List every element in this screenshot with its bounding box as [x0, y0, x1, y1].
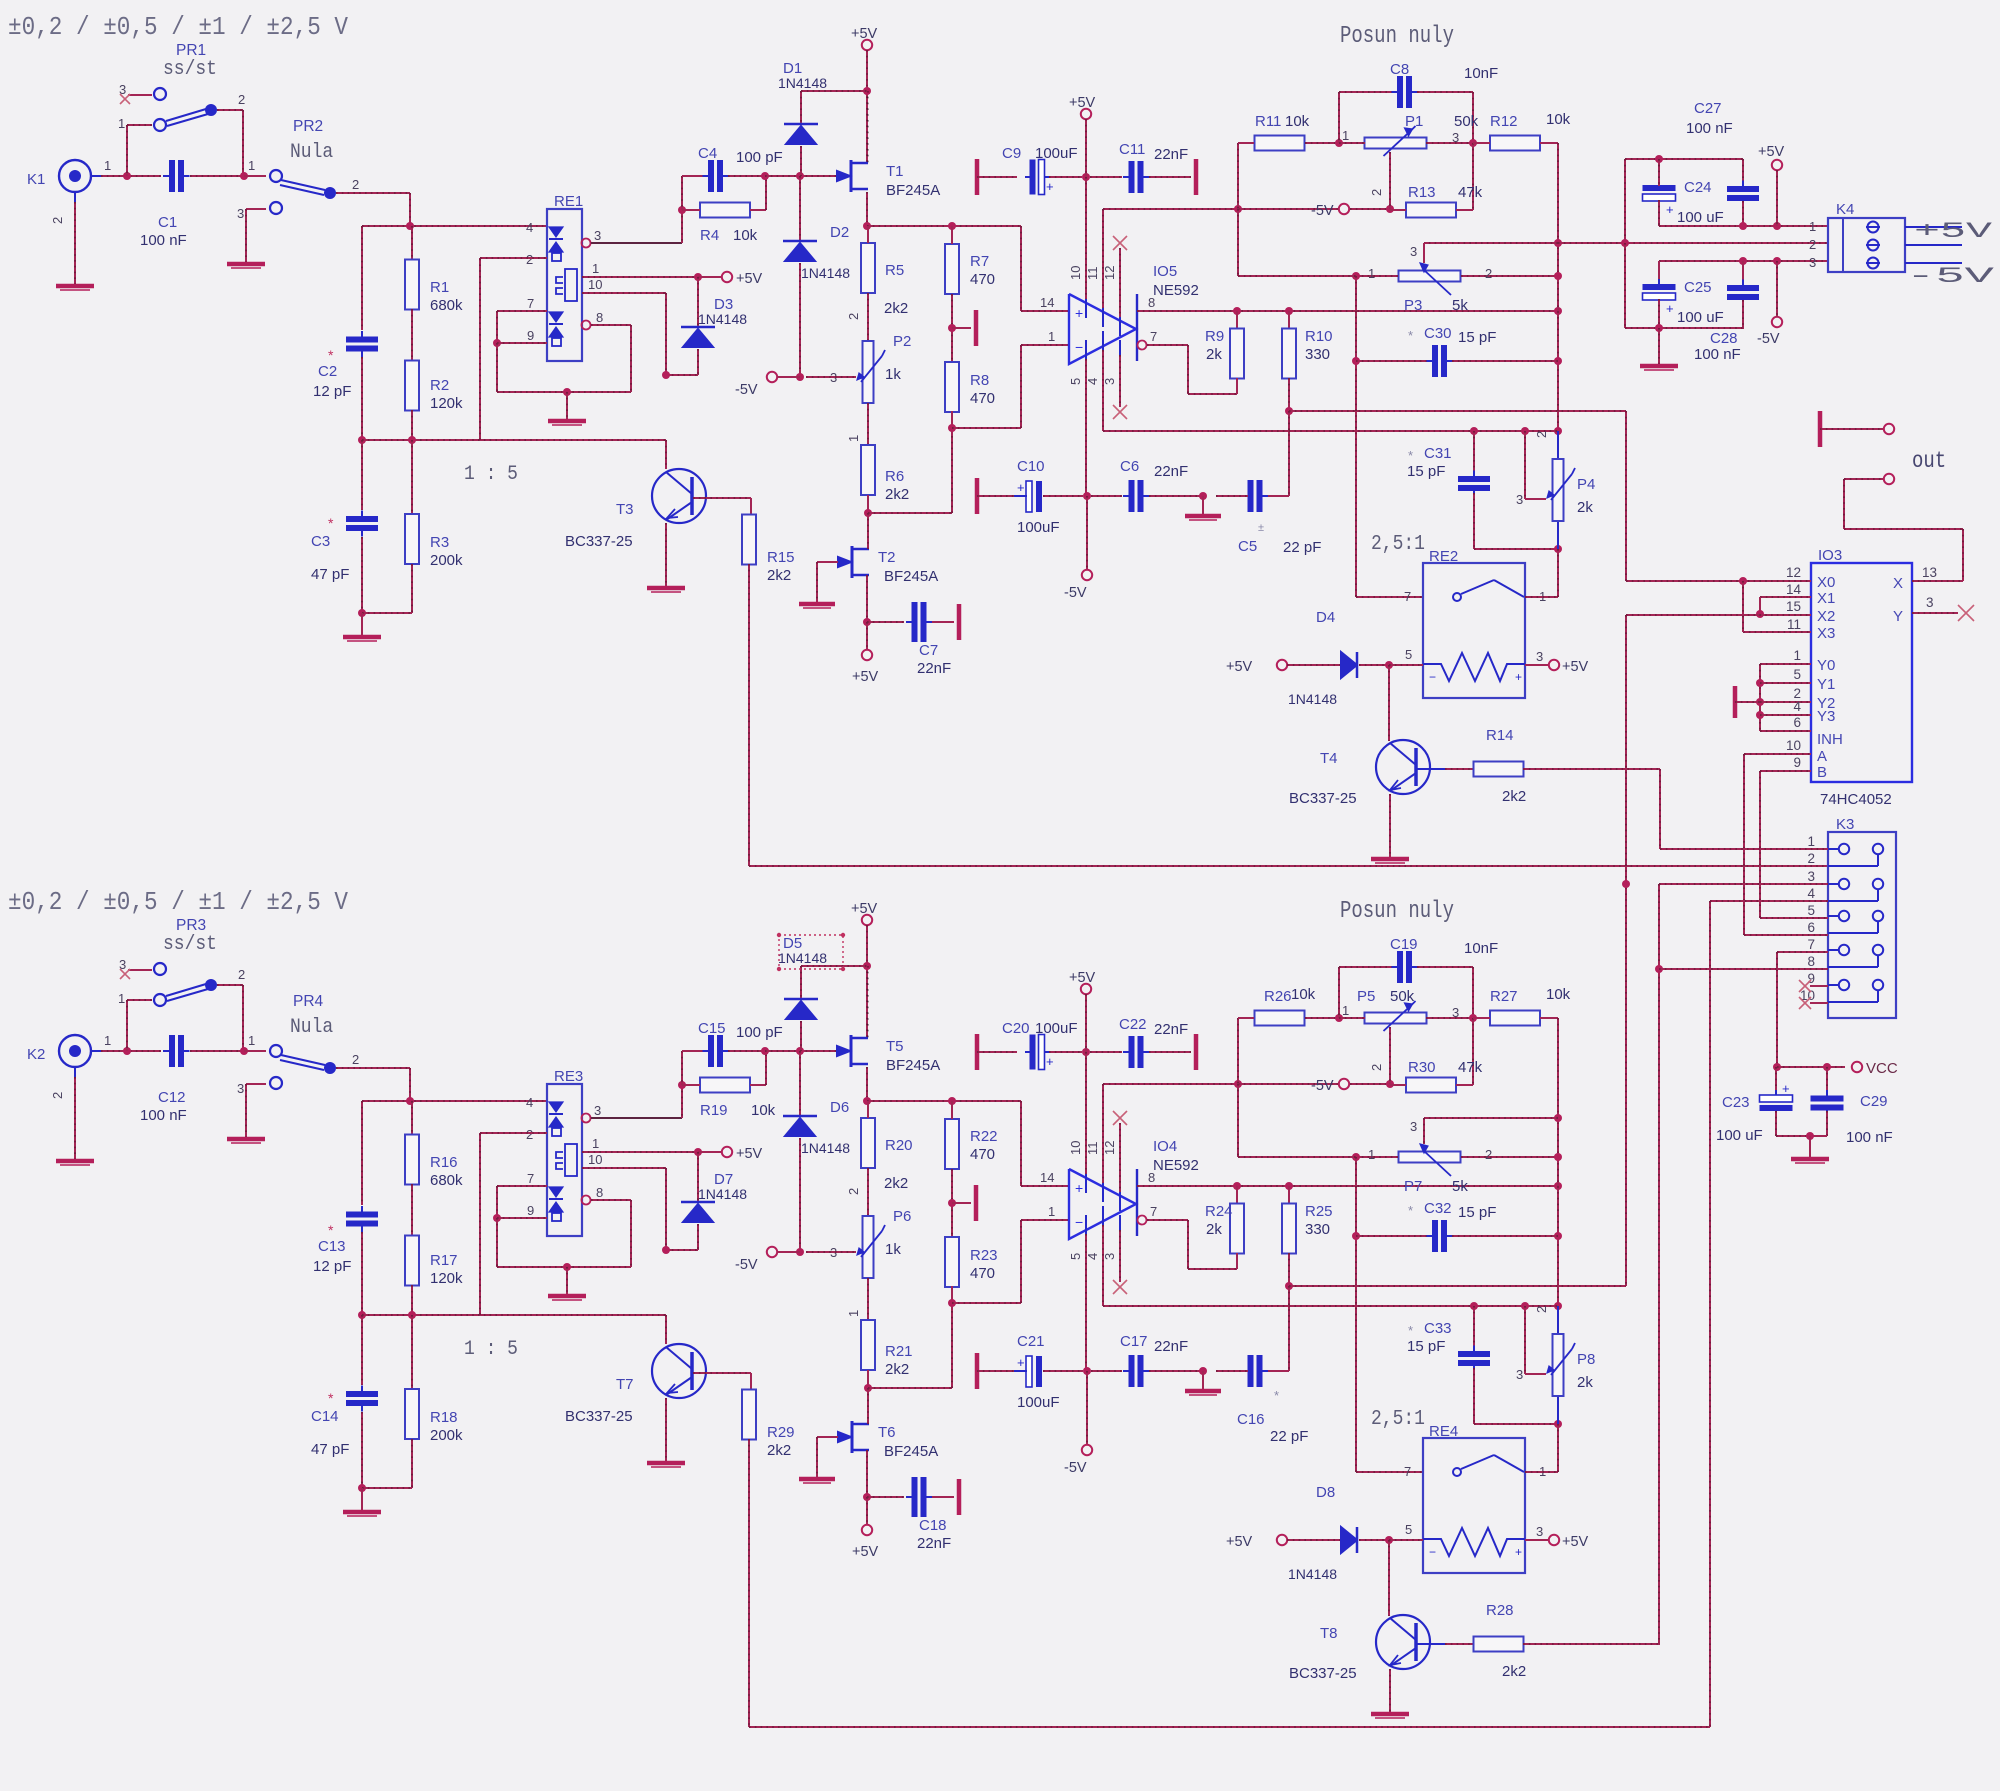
capacitor C33 — [1473, 1306, 1475, 1349]
resistor R3 — [411, 440, 413, 514]
capacitor C3 — [361, 440, 363, 510]
svg-text:100 nF: 100 nF — [140, 232, 187, 249]
wire -5V node to P3 pin1 ch2 — [1237, 1084, 1239, 1157]
+5V pin at K4 — [1772, 160, 1782, 170]
svg-text:K3: K3 — [1836, 816, 1854, 833]
svg-text:C5: C5 — [1238, 538, 1257, 555]
svg-text:K4: K4 — [1836, 201, 1854, 218]
K4 supply loop top rail — [1625, 158, 1743, 160]
svg-text:22nF: 22nF — [917, 660, 951, 677]
svg-text:50k: 50k — [1454, 113, 1479, 130]
diode D2 — [799, 176, 801, 241]
svg-text:12: 12 — [1786, 565, 1801, 580]
svg-text:+5V: +5V — [736, 1146, 763, 1162]
svg-text:2: 2 — [1809, 237, 1816, 252]
svg-text:10k: 10k — [733, 227, 758, 244]
svg-text:3: 3 — [1102, 378, 1117, 385]
resistor R10 — [1288, 311, 1290, 329]
svg-text:7: 7 — [1150, 1204, 1157, 1219]
svg-text:T3: T3 — [616, 501, 634, 518]
riser P3 pin1 to RE2 pin7 ch1 — [1355, 276, 1357, 597]
svg-text:BC337-25: BC337-25 — [1289, 1665, 1357, 1682]
svg-text:+5V: +5V — [852, 669, 879, 685]
K3 pin10 stub — [1810, 1002, 1828, 1004]
wire PR pin2 ch2 — [217, 984, 243, 986]
svg-text:2k: 2k — [1206, 346, 1222, 363]
ground below K1 — [56, 284, 94, 289]
resistor R12 — [1490, 136, 1540, 151]
diode D6 — [799, 1051, 801, 1116]
svg-text:2,5:1: 2,5:1 — [1371, 531, 1425, 556]
connector K1 — [59, 160, 91, 192]
resistor R20 — [861, 1118, 875, 1168]
svg-text:9: 9 — [527, 1203, 534, 1218]
wire C4 node to T1 gate ch2 — [765, 1050, 837, 1052]
IO supply riser ch1 — [1085, 177, 1087, 299]
relay RE1 — [547, 209, 582, 361]
svg-text:1: 1 — [104, 158, 111, 173]
svg-text:-5V: -5V — [1757, 331, 1780, 347]
capacitor C29 — [1826, 1067, 1828, 1095]
T4 emitter ground ch2 — [1389, 1669, 1391, 1713]
diode D1 — [801, 90, 867, 92]
svg-text:−: − — [1075, 339, 1083, 355]
svg-text:6: 6 — [1807, 920, 1815, 935]
node junction at PR pin1 drop ch1 — [123, 172, 131, 180]
svg-text:R10: R10 — [1305, 328, 1333, 345]
svg-text:+5V: +5V — [1758, 144, 1785, 160]
RE pin3 ch1 — [582, 239, 591, 248]
svg-text:15: 15 — [1786, 599, 1801, 614]
svg-text:C7: C7 — [919, 642, 938, 659]
svg-text:22 pF: 22 pF — [1270, 1428, 1308, 1445]
capacitor C2 — [361, 226, 363, 330]
ground T3 emitter ch2 — [665, 1398, 667, 1462]
RE pin7 wire ch1 — [497, 310, 547, 312]
svg-text:5: 5 — [1068, 378, 1083, 385]
svg-text:R16: R16 — [430, 1154, 458, 1171]
svg-text:R20: R20 — [885, 1137, 913, 1154]
svg-text:R18: R18 — [430, 1409, 458, 1426]
svg-text:R1: R1 — [430, 279, 449, 296]
svg-text:3: 3 — [1516, 492, 1523, 507]
svg-text:+5V: +5V — [851, 901, 878, 917]
svg-text:470: 470 — [970, 271, 995, 288]
+5V pin at RE1 ch2 — [722, 1147, 732, 1157]
svg-text:74HC4052: 74HC4052 — [1820, 791, 1892, 808]
gnd cap rail left ch1 — [975, 159, 980, 195]
svg-text:4: 4 — [1085, 1253, 1100, 1260]
svg-text:PR4: PR4 — [293, 993, 324, 1010]
svg-text:R28: R28 — [1486, 1602, 1514, 1619]
svg-text:+5V: +5V — [1562, 1534, 1589, 1550]
svg-text:5: 5 — [1405, 1522, 1412, 1537]
svg-text:ss/st: ss/st — [163, 932, 217, 955]
svg-text:1: 1 — [846, 435, 861, 442]
svg-text:C2: C2 — [318, 363, 337, 380]
svg-text:5: 5 — [1405, 647, 1412, 662]
ground with pin near out — [1818, 411, 1823, 447]
svg-text:R29: R29 — [767, 1424, 795, 1441]
svg-text:3: 3 — [1807, 869, 1815, 884]
RE pin7 wire ch2 — [497, 1185, 547, 1187]
K4 loop bottom rail — [1659, 225, 1828, 227]
svg-text:10k: 10k — [1546, 986, 1571, 1003]
svg-text:R21: R21 — [885, 1343, 913, 1360]
+5V below T2 ch2 — [866, 1497, 868, 1525]
svg-text:5: 5 — [1068, 1253, 1083, 1260]
svg-text:7: 7 — [1404, 589, 1411, 604]
svg-text:R17: R17 — [430, 1252, 458, 1269]
svg-text:2k2: 2k2 — [885, 486, 909, 503]
svg-text:1: 1 — [1342, 1003, 1349, 1018]
svg-text:R6: R6 — [885, 468, 904, 485]
svg-text:3: 3 — [1452, 1005, 1459, 1020]
svg-text:2,5:1: 2,5:1 — [1371, 1406, 1425, 1431]
RE2 coil ch2 — [1423, 1528, 1525, 1556]
svg-text:C3: C3 — [311, 533, 330, 550]
svg-text:T4: T4 — [1320, 750, 1338, 767]
IO pin8 output ch2 — [1137, 1185, 1558, 1187]
IO pin4 line ch1 — [1103, 430, 1558, 432]
ground ladder ch2 — [361, 1488, 363, 1511]
svg-text:C15: C15 — [698, 1020, 726, 1037]
svg-text:*: * — [1408, 448, 1413, 463]
svg-text:1: 1 — [592, 1136, 599, 1151]
svg-text:-5V: -5V — [1311, 1078, 1334, 1094]
svg-text:X3: X3 — [1817, 625, 1835, 642]
svg-text:+: + — [1666, 301, 1674, 316]
svg-text:-5V: -5V — [1064, 1460, 1087, 1476]
svg-text:R12: R12 — [1490, 113, 1518, 130]
RE pin9 wire ch1 — [493, 339, 501, 347]
K4 pin2 wire — [1558, 242, 1828, 244]
capacitor C23 — [1775, 1067, 1777, 1095]
svg-text:2k: 2k — [1577, 1374, 1593, 1391]
IO3 pin 3 Y output with X mark — [1912, 612, 1958, 614]
wire R10 bottom to IO3 ch1 — [1289, 410, 1626, 412]
feedback riser ch1 — [1557, 143, 1559, 458]
node junction at PR pin1 drop ch2 — [123, 1047, 131, 1055]
svg-text:1: 1 — [118, 991, 125, 1006]
wire PR2 pole ch2 — [336, 1067, 410, 1069]
svg-text:T2: T2 — [878, 549, 896, 566]
svg-text:120k: 120k — [430, 395, 463, 412]
capacitor C1 — [169, 160, 175, 192]
wire ladder mid ch1 — [362, 439, 666, 441]
capacitor C4 — [681, 176, 683, 210]
svg-text:3: 3 — [1452, 130, 1459, 145]
IC IO3 74HC4052 — [1811, 563, 1912, 782]
svg-text:120k: 120k — [430, 1270, 463, 1287]
svg-text:1N4148: 1N4148 — [1288, 691, 1337, 707]
svg-text:14: 14 — [1040, 1170, 1054, 1185]
K3 pin5 wire — [1760, 917, 1828, 919]
svg-text:50k: 50k — [1390, 988, 1415, 1005]
svg-text:3: 3 — [237, 206, 244, 221]
IO3 pin 1 Y0 wire — [1760, 663, 1811, 665]
svg-text:+5V: +5V — [1069, 95, 1096, 111]
wire C4 node to T1 gate ch1 — [765, 175, 837, 177]
+5V rail cap row ch1 — [1081, 109, 1091, 119]
svg-text:C6: C6 — [1120, 458, 1139, 475]
svg-text:Y0: Y0 — [1817, 657, 1835, 674]
svg-text:200k: 200k — [430, 1427, 463, 1444]
transistor T3 — [652, 469, 706, 523]
svg-text:2: 2 — [1369, 189, 1384, 196]
svg-text:10k: 10k — [751, 1102, 776, 1119]
K3 pin3 wire — [1659, 883, 1828, 885]
svg-text:BF245A: BF245A — [884, 568, 938, 585]
svg-text:100 uF: 100 uF — [1677, 209, 1724, 226]
svg-text:D2: D2 — [830, 224, 849, 241]
ground ladder ch1 — [361, 613, 363, 636]
svg-text:BC337-25: BC337-25 — [1289, 790, 1357, 807]
svg-text:47k: 47k — [1458, 1059, 1483, 1076]
resistor R21 — [861, 1320, 875, 1370]
RE pin2 wire ch2 — [480, 1132, 547, 1134]
svg-text:+5V: +5V — [1069, 970, 1096, 986]
wire K pin1 to C input node — [101, 1050, 161, 1052]
K3 pin6 wire — [1744, 934, 1828, 936]
IO3 pin 2 Y2 wire — [1760, 701, 1811, 703]
svg-text:RE2: RE2 — [1429, 548, 1458, 565]
+5V supply above T1 ch2 — [862, 915, 872, 925]
svg-text:15 pF: 15 pF — [1458, 1204, 1496, 1221]
capacitor C18 — [912, 1477, 918, 1517]
svg-text:4: 4 — [526, 220, 533, 235]
svg-text:2k2: 2k2 — [1502, 788, 1526, 805]
T2 source node ch1 — [863, 618, 871, 626]
svg-text:9: 9 — [1807, 971, 1815, 986]
T4 emitter ground ch1 — [1389, 794, 1391, 858]
svg-text:2k2: 2k2 — [767, 1442, 791, 1459]
svg-text:11: 11 — [1085, 1142, 1100, 1156]
ground at Y2 — [1733, 686, 1738, 718]
svg-text:*: * — [1408, 1203, 1413, 1218]
svg-text:8: 8 — [1148, 295, 1155, 310]
potentiometer P4 — [1557, 431, 1559, 458]
svg-text:D6: D6 — [830, 1099, 849, 1116]
wire C1 right — [190, 175, 244, 177]
svg-text:7: 7 — [527, 296, 534, 311]
svg-text:10nF: 10nF — [1464, 940, 1498, 957]
svg-text:22nF: 22nF — [1154, 1338, 1188, 1355]
svg-text:R5: R5 — [885, 262, 904, 279]
svg-text:R9: R9 — [1205, 328, 1224, 345]
IO pin7 ch1 — [1138, 341, 1147, 350]
RE pin10 wire ch2 — [582, 1167, 666, 1169]
svg-text:2k2: 2k2 — [1502, 1663, 1526, 1680]
svg-text:IO5: IO5 — [1153, 263, 1177, 280]
svg-text:10: 10 — [1786, 738, 1801, 753]
svg-text:Nula: Nula — [290, 1015, 333, 1038]
svg-text:*: * — [328, 1222, 334, 1238]
svg-text:470: 470 — [970, 390, 995, 407]
capacitor C16 — [1248, 1355, 1254, 1387]
svg-text:P4: P4 — [1577, 476, 1595, 493]
svg-text:±0,2 / ±0,5 / ±1 / ±2,5 V: ±0,2 / ±0,5 / ±1 / ±2,5 V — [8, 888, 349, 918]
ground under C6 ch2 — [1202, 1371, 1204, 1390]
svg-text:*: * — [328, 1390, 334, 1406]
svg-text:1: 1 — [1342, 128, 1349, 143]
svg-text:C33: C33 — [1424, 1320, 1452, 1337]
svg-text:680k: 680k — [430, 1172, 463, 1189]
capacitor C15 — [681, 1051, 683, 1085]
svg-text:K2: K2 — [27, 1046, 45, 1063]
gnd cap rail left2 ch1 — [975, 478, 980, 514]
wire R15 bottom to bus ch1 — [748, 564, 750, 866]
ground at R7/R8 mid ch1 — [952, 327, 971, 329]
svg-text:-5V: -5V — [1311, 203, 1334, 219]
svg-text:BF245A: BF245A — [884, 1443, 938, 1460]
svg-text:100uF: 100uF — [1017, 1394, 1060, 1411]
IO3 pin 6 INH wire — [1760, 730, 1811, 732]
wire -5V node to P3 pin1 ch1 — [1237, 209, 1239, 276]
lever of PR3 — [166, 984, 206, 996]
svg-text:470: 470 — [970, 1265, 995, 1282]
svg-text:1: 1 — [1048, 329, 1055, 344]
capacitor C31 — [1473, 431, 1475, 474]
capacitor C5 — [1248, 480, 1254, 512]
svg-text:3: 3 — [1516, 1367, 1523, 1382]
svg-text:1N4148: 1N4148 — [801, 1140, 850, 1156]
svg-text:100 uF: 100 uF — [1677, 309, 1724, 326]
svg-text:C27: C27 — [1694, 100, 1722, 117]
svg-text:Y: Y — [1893, 608, 1903, 625]
svg-text:2: 2 — [1534, 431, 1549, 438]
svg-text:47 pF: 47 pF — [311, 566, 349, 583]
diode D8 — [1277, 1535, 1287, 1545]
svg-text:1k: 1k — [885, 1241, 901, 1258]
svg-text:2k: 2k — [1577, 499, 1593, 516]
svg-text:+5V: +5V — [1562, 659, 1589, 675]
svg-text:1N4148: 1N4148 — [1288, 1566, 1337, 1582]
svg-text:X1: X1 — [1817, 590, 1835, 607]
resistor R16 — [411, 1101, 413, 1135]
svg-text:C11: C11 — [1119, 141, 1145, 158]
wire K pin2 to ground — [74, 202, 76, 285]
svg-text:*: * — [328, 515, 334, 531]
svg-text:X2: X2 — [1817, 608, 1835, 625]
-5V pin near P2 ch2 — [767, 1247, 777, 1257]
svg-text:+: + — [1046, 179, 1054, 194]
svg-text:T1: T1 — [886, 163, 904, 180]
svg-text:R13: R13 — [1408, 184, 1436, 201]
svg-text:15 pF: 15 pF — [1458, 329, 1496, 346]
wire C1 right — [190, 1050, 244, 1052]
svg-text:11: 11 — [1787, 617, 1801, 632]
connector K4 — [1828, 218, 1905, 272]
potentiometer P8 — [1557, 1306, 1559, 1333]
svg-text:T7: T7 — [616, 1376, 634, 1393]
IO3 pin 5 Y1 wire — [1760, 682, 1811, 684]
wire PR2 pole ch1 — [336, 192, 410, 194]
bottom bus to K3 pin4 riser — [749, 1726, 1710, 1728]
svg-text:INH: INH — [1817, 731, 1843, 748]
RE pin8 wire ch2 — [582, 1196, 591, 1205]
svg-text:+5V: +5V — [1914, 219, 1994, 244]
diode D7 — [697, 1152, 699, 1202]
svg-text:+5V: +5V — [736, 271, 763, 287]
resistor R15 — [742, 515, 756, 565]
svg-text:*: * — [1274, 1388, 1279, 1403]
resistor R17 — [405, 1236, 419, 1286]
svg-text:5k: 5k — [1452, 1178, 1468, 1195]
svg-text:Y3: Y3 — [1817, 708, 1835, 725]
channel2 output link to X2 riser — [1289, 1285, 1626, 1287]
relay RE2 — [1423, 563, 1525, 698]
-5V below opamp ch1 — [1086, 496, 1088, 570]
IO supply riser ch2 — [1085, 1052, 1087, 1174]
IO3 pin 15 X2 wire — [1626, 614, 1811, 616]
svg-text:1k: 1k — [885, 366, 901, 383]
K3 pin9 stub — [1810, 985, 1828, 987]
svg-text:RE4: RE4 — [1429, 1423, 1458, 1440]
svg-text:−: − — [1429, 1545, 1436, 1559]
svg-text:Y1: Y1 — [1817, 676, 1835, 693]
RE pin10 wire ch1 — [582, 292, 666, 294]
svg-text:C25: C25 — [1684, 279, 1712, 296]
svg-text:C9: C9 — [1002, 145, 1021, 162]
potentiometer P1 — [1365, 138, 1427, 149]
svg-text:100uF: 100uF — [1017, 519, 1060, 536]
svg-text:5k: 5k — [1452, 297, 1468, 314]
svg-text:8: 8 — [1807, 954, 1815, 969]
wire R8 to IO5 inv input ch2 — [952, 1302, 1021, 1304]
svg-text:9: 9 — [1793, 755, 1801, 770]
wire R10 node down to C5 ch1 — [1288, 411, 1290, 496]
resistor R25 — [1288, 1186, 1290, 1204]
svg-text:1N4148: 1N4148 — [698, 311, 747, 327]
wire R8 to IO5 inv input ch1 — [952, 427, 1021, 429]
svg-text:1N4148: 1N4148 — [778, 75, 827, 91]
T2 gate to ground ch1 — [817, 561, 838, 563]
svg-text:10: 10 — [588, 1152, 602, 1167]
svg-text:12 pF: 12 pF — [313, 1258, 351, 1275]
svg-text:2: 2 — [352, 1052, 359, 1067]
diode D5 — [801, 965, 867, 967]
svg-text:*: * — [1408, 1323, 1413, 1338]
K3 pin4 wire — [1710, 900, 1828, 902]
svg-text:C24: C24 — [1684, 179, 1712, 196]
svg-text:C23: C23 — [1722, 1094, 1750, 1111]
ground RE ch2 — [566, 1267, 568, 1295]
svg-text:5: 5 — [1793, 667, 1801, 682]
svg-text:C28: C28 — [1710, 330, 1738, 347]
svg-text:R15: R15 — [767, 549, 795, 566]
svg-text:7: 7 — [1807, 937, 1815, 952]
svg-text:1: 1 — [248, 158, 255, 173]
op-amp IO4 NE592 — [1069, 1169, 1136, 1239]
resistor R7 — [945, 244, 959, 294]
ground T3 emitter ch1 — [665, 523, 667, 587]
svg-text:T6: T6 — [878, 1424, 896, 1441]
svg-text:8: 8 — [596, 1185, 603, 1200]
resistor R4 — [700, 203, 750, 218]
svg-text:2: 2 — [846, 313, 861, 320]
IO pin10 11 12 ch2 — [1085, 1174, 1087, 1193]
svg-text:12 pF: 12 pF — [313, 383, 351, 400]
RE2 pin1 wire ch1 — [1525, 596, 1558, 598]
transistor T8 — [1388, 1540, 1390, 1616]
resistor R1 — [411, 226, 413, 260]
wire R6 bottom to R8 riser ch1 — [868, 512, 952, 514]
svg-text:C8: C8 — [1390, 61, 1409, 78]
resistor R24 — [1236, 1186, 1238, 1204]
svg-text:C13: C13 — [318, 1238, 346, 1255]
ground RE ch1 — [566, 392, 568, 420]
